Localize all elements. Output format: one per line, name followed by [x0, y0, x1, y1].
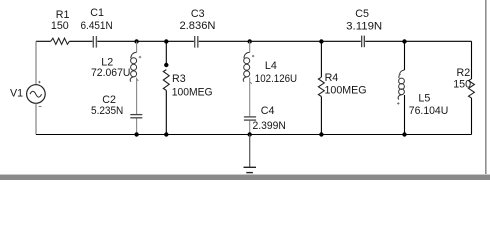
wire node D to C5 — [321, 40, 360, 42]
svg-text:100MEG: 100MEG — [172, 86, 213, 98]
svg-text:R2: R2 — [457, 67, 471, 79]
wire node A to node B — [137, 40, 167, 42]
svg-text:C1: C1 — [90, 7, 104, 19]
svg-text:150: 150 — [453, 79, 471, 91]
node C bottom junction dot — [248, 132, 252, 136]
resistor R2 — [453, 41, 474, 134]
inductor L4 — [243, 42, 297, 117]
wire node B to C3 — [166, 40, 194, 42]
resistor R1 — [51, 9, 70, 45]
svg-text:2.836N: 2.836N — [180, 20, 216, 32]
resistor R3 — [163, 42, 212, 135]
wire C5 to node E — [365, 40, 404, 42]
L2 pin tick — [137, 79, 138, 80]
node D junction dot — [319, 39, 323, 43]
capacitor C5 — [346, 8, 382, 47]
node B bottom junction dot — [164, 132, 168, 136]
node A bottom junction dot — [134, 132, 138, 136]
inductor L5 — [398, 42, 448, 135]
L4 pin tick — [250, 82, 251, 83]
V1 minus tick — [39, 106, 42, 108]
resistor R4 — [318, 42, 366, 135]
svg-text:R1: R1 — [56, 9, 70, 21]
svg-text:5.235N: 5.235N — [91, 105, 123, 117]
svg-text:C4: C4 — [261, 105, 275, 117]
svg-text:L5: L5 — [418, 93, 430, 105]
svg-text:C5: C5 — [355, 8, 369, 20]
capacitor C1 — [81, 7, 113, 47]
L5 plus tick — [397, 102, 399, 104]
wire C1 to node A — [97, 40, 136, 42]
L4 plus tick — [252, 55, 254, 57]
svg-text:C3: C3 — [191, 8, 205, 20]
svg-text:R4: R4 — [325, 72, 339, 84]
L5 pin tick — [399, 74, 400, 75]
L2 plus tick — [139, 56, 141, 58]
window bottom gray band — [0, 175, 490, 180]
V1 plus tick — [38, 81, 40, 83]
window bottom edge highlight — [0, 174, 490, 175]
svg-text:V1: V1 — [10, 87, 23, 99]
wire node E to right corner — [405, 40, 472, 42]
node B junction dot — [164, 39, 168, 43]
wire bottom rail — [36, 134, 472, 136]
svg-text:6.451N: 6.451N — [81, 20, 113, 32]
wire node C to node D — [250, 40, 322, 42]
svg-text:L4: L4 — [265, 60, 277, 72]
svg-text:102.126U: 102.126U — [255, 73, 297, 85]
svg-text:72.067U: 72.067U — [91, 67, 130, 79]
node E junction dot — [402, 39, 406, 43]
inductor L2 — [91, 42, 137, 115]
capacitor C2 — [91, 94, 142, 135]
capacitor C3 — [180, 8, 216, 48]
svg-text:76.104U: 76.104U — [409, 105, 449, 117]
voltage source V1 — [10, 41, 45, 134]
wire R1 to C1 — [69, 40, 92, 42]
window right border line — [485, 0, 487, 175]
svg-text:2.399N: 2.399N — [253, 120, 286, 132]
svg-text:150: 150 — [51, 20, 69, 32]
svg-text:R3: R3 — [172, 73, 186, 85]
node A junction dot — [134, 39, 138, 43]
node C junction dot — [248, 39, 252, 43]
ground — [244, 135, 257, 173]
wire top rail left segment — [36, 40, 51, 42]
node E bottom junction dot — [402, 132, 406, 136]
svg-text:100MEG: 100MEG — [325, 85, 367, 97]
capacitor C4 — [244, 105, 286, 134]
svg-text:3.119N: 3.119N — [346, 20, 382, 32]
wire C3 to node C — [199, 40, 250, 42]
node D bottom junction dot — [319, 132, 323, 136]
